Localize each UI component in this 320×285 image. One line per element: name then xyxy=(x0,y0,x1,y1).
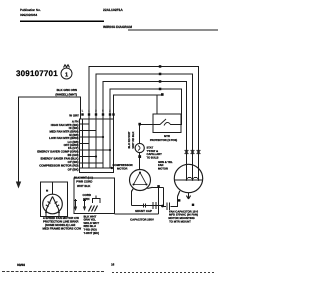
svg-text:MOTOR: MOTOR xyxy=(158,167,168,170)
svg-text:16: 16 xyxy=(111,263,115,267)
svg-text:WIRING DIAGRAM: WIRING DIAGRAM xyxy=(103,25,132,29)
svg-text:WHT RD BLK: WHT RD BLK xyxy=(132,131,135,148)
svg-text:BLK RD WHT: BLK RD WHT xyxy=(128,131,131,148)
svg-text:0992026964: 0992026964 xyxy=(20,13,37,17)
svg-text:03/98: 03/98 xyxy=(17,263,25,267)
svg-text:MOTOR: MOTOR xyxy=(117,167,127,171)
svg-text:T-WHT (BK): T-WHT (BK) xyxy=(84,231,100,235)
svg-text:M: M xyxy=(46,190,48,193)
svg-text:WHT BLK: WHT BLK xyxy=(77,184,91,188)
svg-text:CAPACITOR 250V: CAPACITOR 250V xyxy=(130,218,154,222)
svg-text:TO MTR MOUNT: TO MTR MOUNT xyxy=(169,220,191,224)
svg-text:PWR CORD: PWR CORD xyxy=(76,180,92,184)
svg-text:BLK WHT (L1): BLK WHT (L1) xyxy=(74,176,93,180)
svg-text:GRN: GRN xyxy=(83,197,89,201)
svg-text:MTR: MTR xyxy=(164,135,170,138)
svg-text:SHUNT CAP: SHUNT CAP xyxy=(135,209,152,213)
svg-text:OF (BK): OF (BK) xyxy=(68,167,79,171)
svg-text:(WHEEL) (WHT): (WHEEL) (WHT) xyxy=(55,92,77,96)
svg-text:PROTECTOR (3 POS): PROTECTOR (3 POS) xyxy=(150,139,177,142)
svg-text:W GRY: W GRY xyxy=(69,114,79,118)
svg-text:Publication No.: Publication No. xyxy=(20,8,41,12)
svg-text:309107701: 309107701 xyxy=(16,69,58,78)
svg-text:TO BULB: TO BULB xyxy=(147,156,159,159)
svg-text:MED FRAME MOTORS CCW: MED FRAME MOTORS CCW xyxy=(43,227,82,231)
svg-text:22AL102F1A: 22AL102F1A xyxy=(103,8,123,12)
